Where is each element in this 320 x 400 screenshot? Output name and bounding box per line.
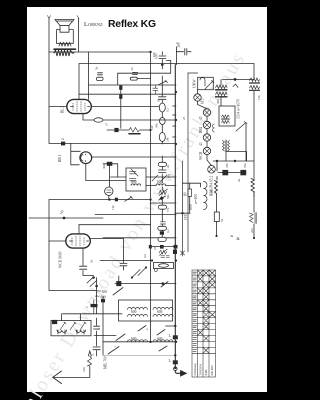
svg-text:600: 600	[131, 310, 137, 314]
svg-text:300: 300	[102, 290, 108, 294]
svg-text:25: 25	[153, 246, 157, 250]
svg-text:1nF: 1nF	[150, 125, 154, 130]
svg-text:43: 43	[199, 116, 203, 120]
svg-text:2n: 2n	[130, 67, 134, 71]
svg-text:3334 w=1070: 3334 w=1070	[237, 99, 241, 119]
svg-text:15k: 15k	[257, 95, 261, 100]
svg-text:50k: 50k	[166, 194, 170, 199]
svg-text:600: 600	[157, 337, 163, 341]
svg-text:2k: 2k	[166, 164, 170, 168]
svg-text:30k: 30k	[102, 164, 106, 169]
svg-text:Lorenz: Lorenz	[84, 21, 103, 28]
svg-text:2nF: 2nF	[177, 42, 181, 48]
svg-text:30k: 30k	[155, 123, 159, 128]
svg-text:KML: KML	[204, 369, 208, 376]
svg-text:RB1: RB1	[199, 126, 203, 133]
svg-text:600: 600	[131, 337, 137, 341]
svg-text:43: 43	[199, 142, 203, 146]
svg-text:50: 50	[157, 98, 161, 102]
svg-text:2k: 2k	[237, 178, 241, 182]
svg-text:TA/UKW: TA/UKW	[199, 364, 203, 376]
svg-text:12k: 12k	[111, 205, 115, 210]
svg-text:UKW: UKW	[193, 79, 197, 88]
svg-text:Reflex KG: Reflex KG	[108, 19, 156, 30]
svg-text:80: 80	[184, 192, 188, 196]
svg-text:Vy: Vy	[60, 210, 64, 214]
svg-text:600: 600	[157, 310, 163, 314]
svg-text:220: 220	[82, 367, 86, 372]
svg-text:27: 27	[105, 122, 109, 126]
svg-text:25: 25	[182, 116, 186, 120]
svg-text:600: 600	[157, 180, 163, 184]
svg-text:Schaltung: Schaltung	[193, 363, 197, 375]
svg-text:2M: 2M	[166, 137, 170, 142]
svg-text:5%: 5%	[166, 207, 170, 212]
svg-text:60V: 60V	[189, 203, 193, 210]
svg-text:600: 600	[101, 295, 107, 299]
svg-text:600 kHz: 600 kHz	[210, 365, 214, 376]
svg-text:5k: 5k	[90, 259, 94, 263]
svg-text:4k: 4k	[230, 234, 234, 238]
svg-text:47k: 47k	[225, 163, 229, 168]
svg-text:2k4: 2k4	[250, 228, 254, 233]
svg-text:304: 304	[216, 99, 220, 104]
svg-text:BL 2: BL 2	[61, 106, 65, 113]
svg-text:615: 615	[201, 98, 205, 104]
svg-text:600: 600	[210, 188, 214, 193]
svg-text:w=100: w=100	[194, 194, 198, 204]
svg-text:15V: 15V	[184, 213, 188, 220]
svg-text:RB 1: RB 1	[58, 154, 62, 162]
svg-text:2: 2	[61, 138, 65, 140]
svg-text:600: 600	[131, 180, 137, 184]
svg-text:MIL 700: MIL 700	[104, 356, 108, 369]
svg-text:WCH: WCH	[199, 151, 203, 160]
svg-text:5k: 5k	[220, 218, 224, 222]
svg-text:WCH 9600: WCH 9600	[59, 251, 63, 268]
svg-text:5%: 5%	[167, 173, 171, 178]
svg-text:70k: 70k	[243, 163, 247, 168]
svg-text:5k: 5k	[95, 66, 99, 70]
svg-text:100: 100	[152, 52, 156, 57]
svg-text:4k: 4k	[236, 237, 240, 241]
